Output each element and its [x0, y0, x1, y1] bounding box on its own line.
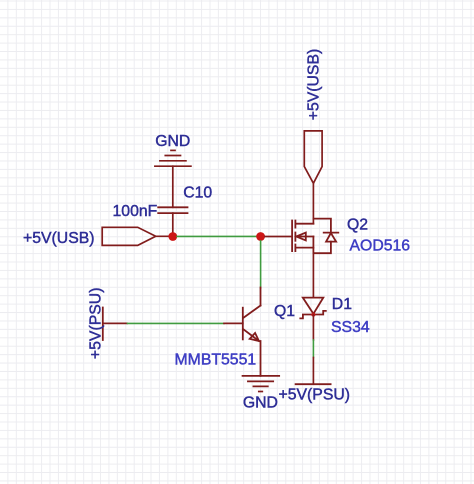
pin dot D1 cathode: [311, 313, 315, 317]
junction node 1: [168, 232, 177, 241]
transistor Q2 (N-MOSFET with body diode): [292, 219, 338, 254]
svg-text:MMBT5551: MMBT5551: [175, 351, 257, 368]
capacitor C10: [158, 207, 187, 213]
wire D1 to +5V(PSU) (green net): [312, 340, 314, 358]
wire ground to C10 top plate: [172, 166, 174, 207]
svg-text:SS34: SS34: [331, 319, 370, 336]
svg-text:+5V(USB): +5V(USB): [23, 230, 95, 247]
source pin line: [295, 247, 313, 249]
junction node 2: [256, 232, 265, 241]
body to source vertical: [312, 237, 314, 254]
wire to Q1 base (green net): [128, 322, 225, 324]
power symbol +5V(PSU) (left bar): [102, 308, 104, 341]
power symbol +5V(PSU) (bottom bar): [296, 383, 331, 385]
svg-text:Q2: Q2: [347, 216, 368, 233]
channel segment middle: [294, 233, 296, 241]
body diode triangle: [326, 233, 336, 242]
diode D1 (Schottky): [300, 298, 326, 319]
channel segment bottom: [294, 245, 296, 252]
wire node2 down to Q1 collector (green net): [260, 241, 262, 288]
ground symbol (top, for C10): [155, 150, 191, 166]
wire D1 cathode stub (red): [312, 315, 314, 341]
svg-text:GND: GND: [155, 133, 190, 150]
wire C10 bottom plate to node 1: [172, 213, 174, 236]
body diode bottom link: [313, 242, 331, 254]
wire to power bar (red): [312, 358, 314, 385]
svg-text:+5V(PSU): +5V(PSU): [279, 387, 351, 404]
collector diagonal: [243, 306, 260, 318]
ground symbol (bottom, for Q1 emitter): [243, 376, 280, 392]
body diode top link: [313, 219, 331, 233]
wire Q2 source to D1 anode: [312, 253, 314, 297]
collector vertical stub: [260, 288, 262, 306]
svg-text:C10: C10: [183, 184, 212, 201]
wire green to Q1 base stub (red): [224, 322, 243, 324]
wire PSU bar stub (red): [103, 322, 127, 324]
svg-text:AOD516: AOD516: [350, 237, 411, 254]
wire node2 to Q2 gate: [265, 236, 292, 238]
svg-text:100nF: 100nF: [113, 203, 158, 220]
svg-text:Q1: Q1: [274, 303, 295, 320]
drain pin line: [295, 223, 313, 225]
transistor Q1 (NPN): [243, 288, 261, 376]
svg-text:D1: D1: [332, 296, 352, 313]
wire tag point to Q2 drain: [312, 183, 314, 223]
wire node1 to node2 (net +5V(USB)): [177, 235, 256, 237]
power tag +5V(USB) (left): [102, 227, 156, 245]
base bar: [242, 308, 244, 340]
power tag +5V(USB) (top right): [304, 131, 322, 183]
channel segment top: [294, 221, 296, 228]
emitter arrowhead: [250, 333, 259, 341]
emitter vertical: [260, 341, 262, 376]
wire tag point to node 1: [156, 235, 170, 237]
gate bar: [291, 221, 293, 252]
body line with arrow: [295, 236, 313, 238]
svg-text:+5V(USB): +5V(USB): [305, 49, 322, 121]
body diode cathode bar: [324, 232, 339, 234]
emitter diagonal: [243, 329, 259, 341]
svg-text:GND: GND: [243, 395, 278, 412]
